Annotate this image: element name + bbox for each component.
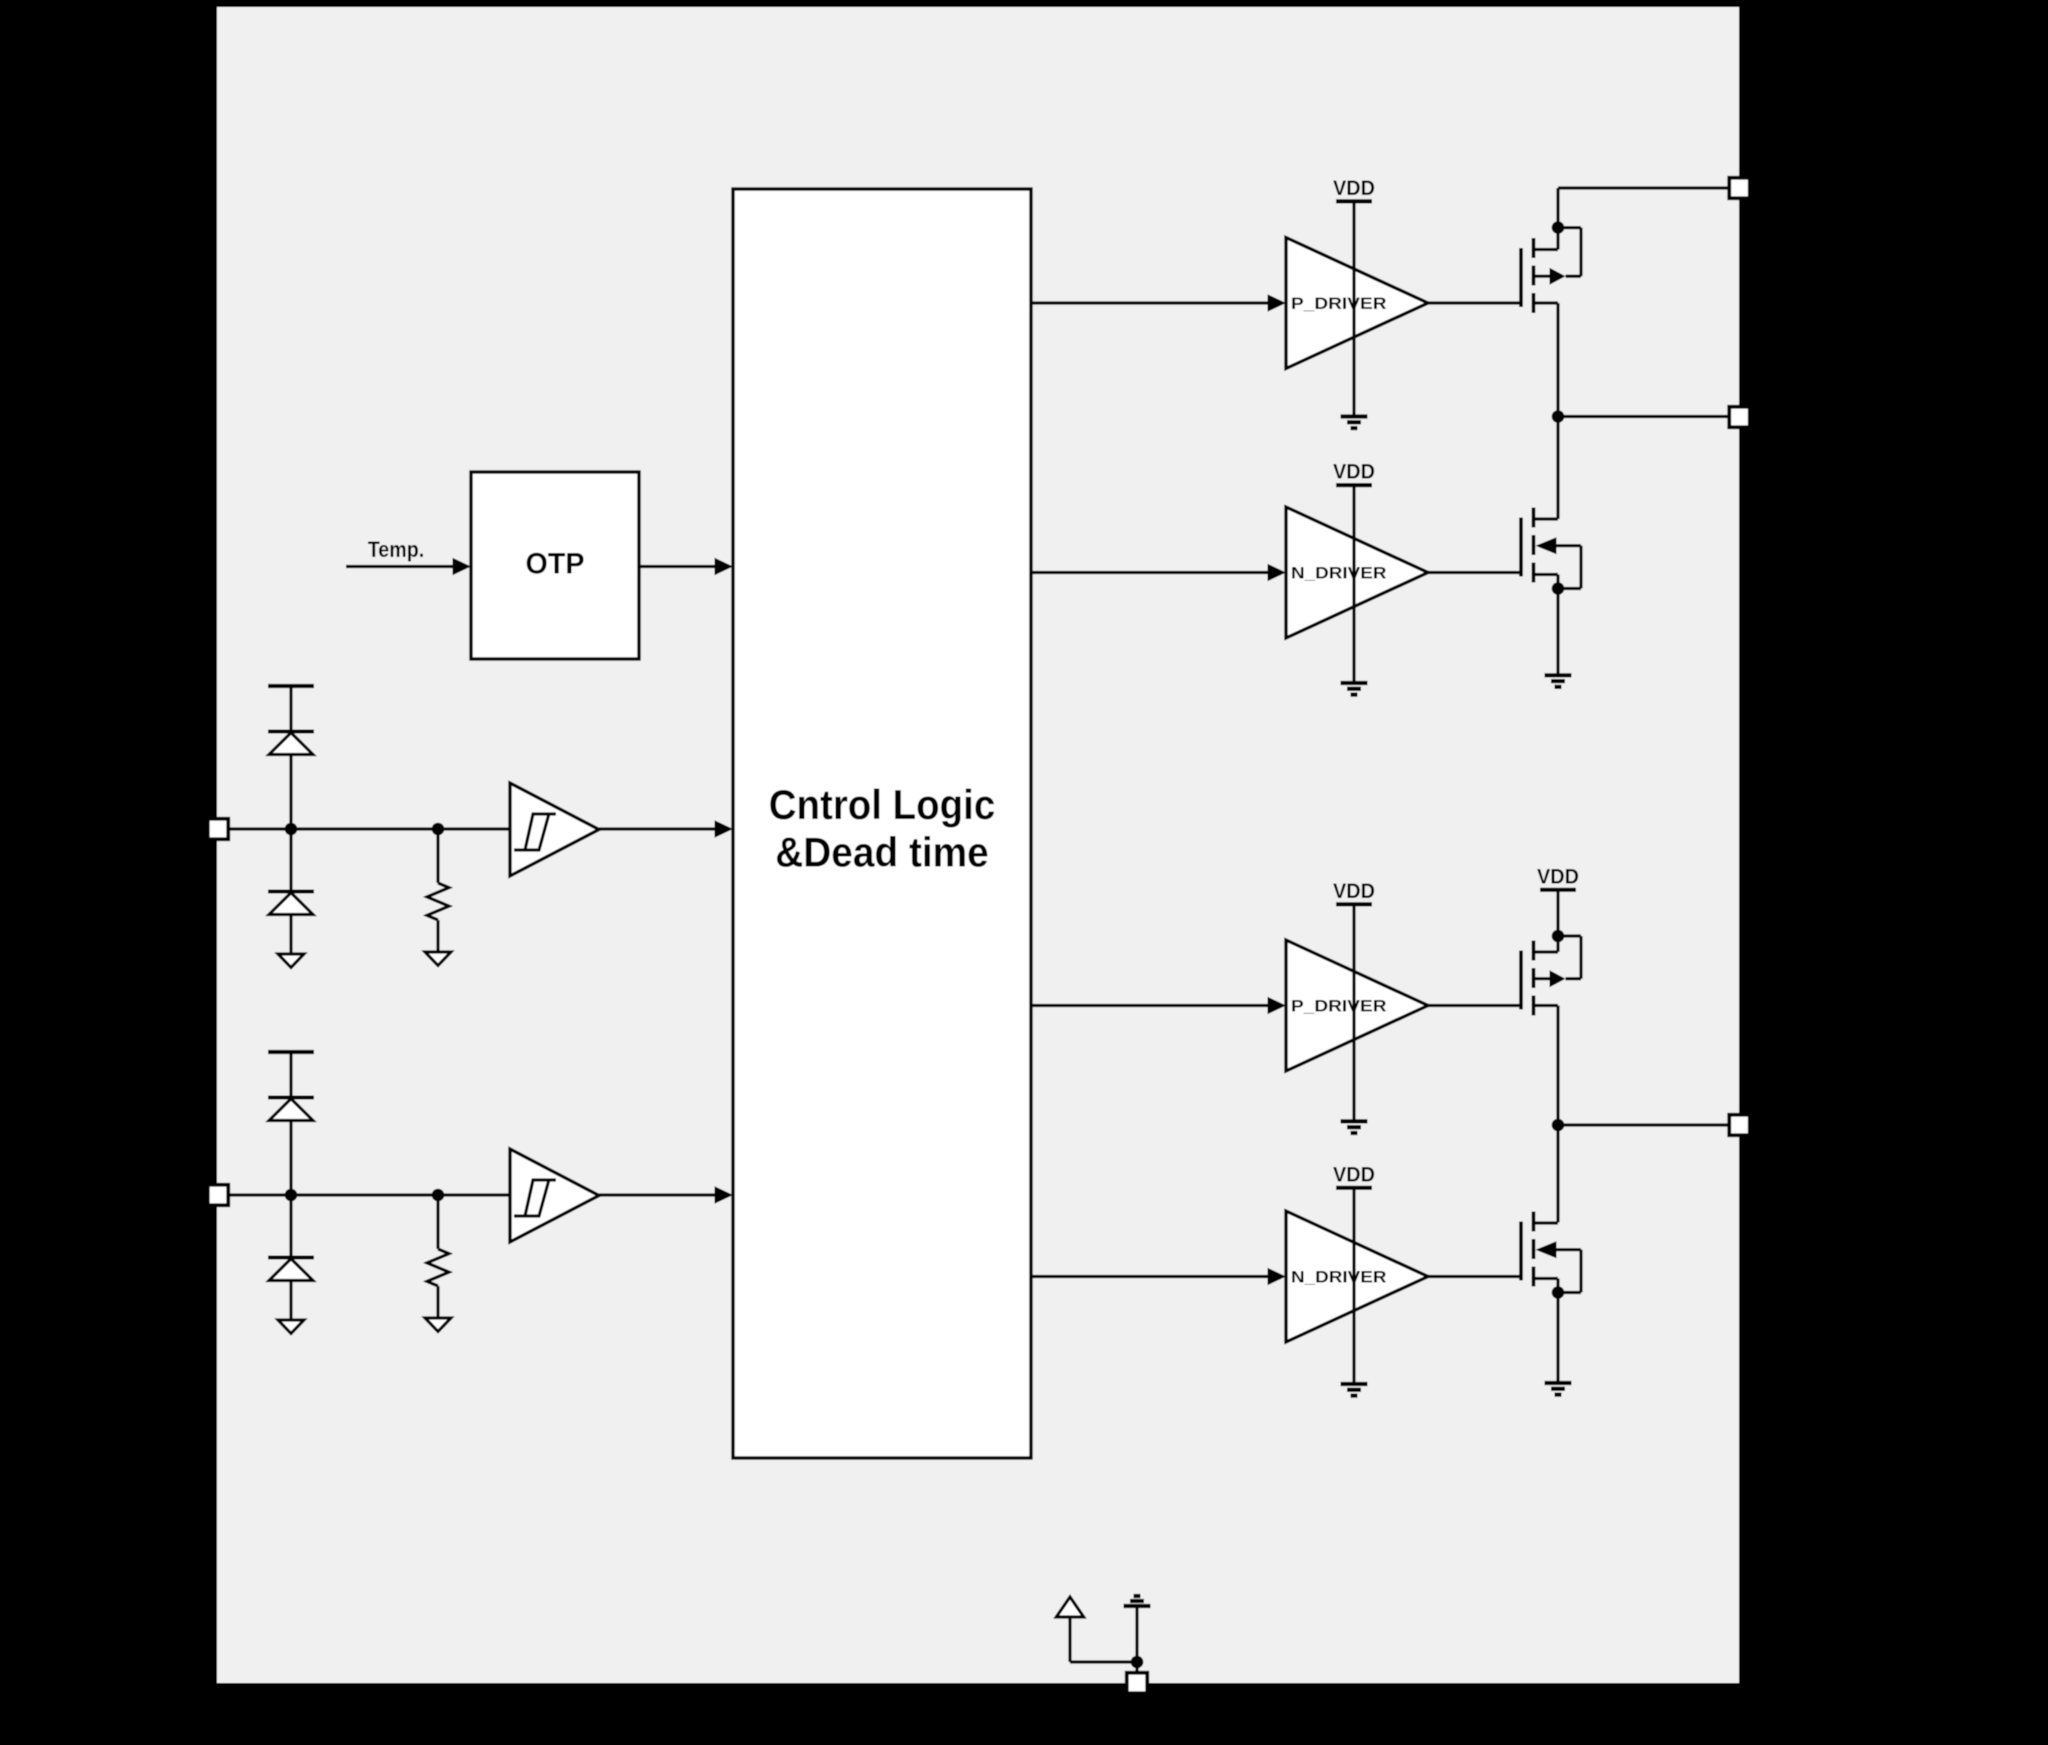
block U1 Cntrol Logic &Dead time [733, 189, 1031, 1458]
ground of Q2 [1545, 675, 1572, 687]
pad OUT1 [1729, 407, 1750, 428]
svg-text:N_DRIVER: N_DRIVER [1291, 564, 1387, 582]
driver N_DRIVER2 [1286, 1211, 1428, 1342]
wire Q2 source to ground [1556, 589, 1559, 676]
ground of P_DRIVER2 [1341, 1121, 1368, 1133]
wire Q4 drain up to OUT2 [1556, 1125, 1559, 1223]
node junction at resistor row2 [432, 1189, 445, 1202]
wire VDD through driver4 [1352, 1188, 1355, 1384]
pad VM [1729, 178, 1750, 199]
diode ESD upper row1 [268, 732, 314, 755]
driver N_DRIVER1 [1286, 507, 1428, 638]
wire row1 [289, 915, 292, 955]
driver P_DRIVER2 [1286, 940, 1428, 1071]
wire input net row1 [228, 827, 510, 830]
wire control to N_DRIVER1 [1031, 564, 1286, 581]
wire [1070, 1617, 1137, 1662]
label Temp. [368, 537, 425, 562]
buffer schmitt trigger row1 [510, 783, 599, 876]
svg-text:P_DRIVER: P_DRIVER [1291, 997, 1387, 1015]
wire [1135, 1606, 1138, 1662]
supply VDD of N_DRIVER1 [1333, 460, 1375, 486]
wire VDD through driver2 [1352, 485, 1355, 683]
diode ESD lower row1 [268, 892, 314, 915]
wire to control logic row1 [599, 820, 733, 837]
wire VDD through driver3 [1352, 904, 1355, 1121]
ground arrow row2 [425, 1318, 451, 1332]
svg-text:VDD: VDD [1537, 864, 1579, 888]
supply VDD of N_DRIVER2 [1333, 1162, 1375, 1188]
wire row1 [436, 920, 439, 952]
wire OTP to control logic [639, 558, 733, 575]
ground of P_DRIVER1 [1341, 417, 1368, 429]
svg-text:VDD: VDD [1333, 1162, 1375, 1186]
resistor pulldown row2 [427, 1249, 449, 1286]
wire Q4 source to ground [1556, 1293, 1559, 1384]
wire row2 [289, 1195, 292, 1258]
pad input IN row2 [208, 1185, 229, 1206]
substrate arrow symbol [1056, 1597, 1084, 1617]
wire OUT1 to pad [1558, 415, 1730, 418]
ground of N_DRIVER2 [1341, 1384, 1368, 1396]
svg-text:Temp.: Temp. [368, 537, 425, 562]
chip body (gray area) [217, 7, 1739, 1683]
wire VDD through driver1 [1352, 201, 1355, 416]
svg-text:P_DRIVER: P_DRIVER [1291, 295, 1387, 313]
ground of N_DRIVER1 [1341, 683, 1368, 695]
wire Q2 drain up to OUT1 [1556, 417, 1559, 520]
wire N_DRIVER1 to Q2 gate [1428, 571, 1521, 574]
node OUT2 [1552, 1119, 1565, 1132]
svg-text:N_DRIVER: N_DRIVER [1291, 1268, 1387, 1286]
svg-text:&Dead time: &Dead time [775, 829, 989, 876]
ground symbol flipped [1124, 1596, 1151, 1606]
pad input IN row1 [208, 819, 229, 840]
power rail bar row2 [268, 1050, 314, 1054]
svg-text:Cntrol Logic: Cntrol Logic [769, 781, 996, 828]
svg-text:VDD: VDD [1333, 879, 1375, 903]
wire row1 [289, 686, 292, 732]
power rail bar row1 [268, 684, 314, 688]
supply VDD of P_DRIVER1 [1333, 176, 1375, 202]
block OTP [471, 472, 639, 659]
wire Q3 drain to OUT2 node [1556, 1006, 1559, 1126]
node junction at resistor row1 [432, 823, 445, 836]
wire row1 [289, 755, 292, 830]
ground arrow row1 [278, 954, 304, 968]
wire N_DRIVER2 to Q4 gate [1428, 1275, 1521, 1278]
driver P_DRIVER1 [1286, 238, 1428, 369]
ground of Q4 [1545, 1383, 1572, 1395]
wire control to N_DRIVER2 [1031, 1268, 1286, 1285]
wire row2 [436, 1286, 439, 1318]
svg-text:VDD: VDD [1333, 460, 1375, 484]
wire P_DRIVER2 to Q3 gate [1428, 1004, 1521, 1007]
wire Temp. input arrow [346, 558, 471, 575]
wire row1 [289, 829, 292, 892]
wire P_DRIVER1 to Q1 gate [1428, 301, 1521, 304]
wire control to P_DRIVER2 [1031, 997, 1286, 1014]
wire OUT2 to pad [1558, 1123, 1730, 1126]
node GND net [1131, 1656, 1144, 1669]
ground arrow row2 [278, 1320, 304, 1334]
transistor Q3 PMOS [1521, 930, 1581, 1016]
wire Q1 source to VM pad [1558, 188, 1730, 228]
transistor Q1 PMOS [1521, 221, 1581, 313]
node junction at ESD row2 [285, 1189, 298, 1202]
wire row1 [436, 829, 439, 883]
wire Q1 drain to OUT1 node [1556, 303, 1559, 417]
diode ESD lower row2 [268, 1258, 314, 1281]
wire to control logic row2 [599, 1186, 733, 1203]
pad GND [1127, 1673, 1148, 1694]
svg-text:VDD: VDD [1333, 176, 1375, 200]
wire VDD to Q3 source [1556, 890, 1559, 936]
diode ESD upper row2 [268, 1098, 314, 1121]
node OUT1 [1552, 410, 1565, 423]
wire control to P_DRIVER1 [1031, 294, 1286, 311]
svg-text:OTP: OTP [526, 548, 585, 581]
wire row2 [289, 1121, 292, 1196]
ground arrow row1 [425, 952, 451, 966]
supply VDD of P_DRIVER2 [1333, 879, 1375, 905]
pad OUT2 [1729, 1115, 1750, 1136]
wire [1135, 1662, 1138, 1673]
wire row2 [289, 1052, 292, 1098]
supply VDD of Q3 [1537, 864, 1579, 890]
wire input net row2 [228, 1193, 510, 1196]
wire row2 [436, 1195, 439, 1249]
transistor Q2 NMOS [1521, 508, 1581, 595]
wire row2 [289, 1281, 292, 1321]
resistor pulldown row1 [427, 883, 449, 920]
transistor Q4 NMOS [1521, 1212, 1581, 1299]
node junction at ESD row1 [285, 823, 298, 836]
buffer schmitt trigger row2 [510, 1149, 599, 1242]
